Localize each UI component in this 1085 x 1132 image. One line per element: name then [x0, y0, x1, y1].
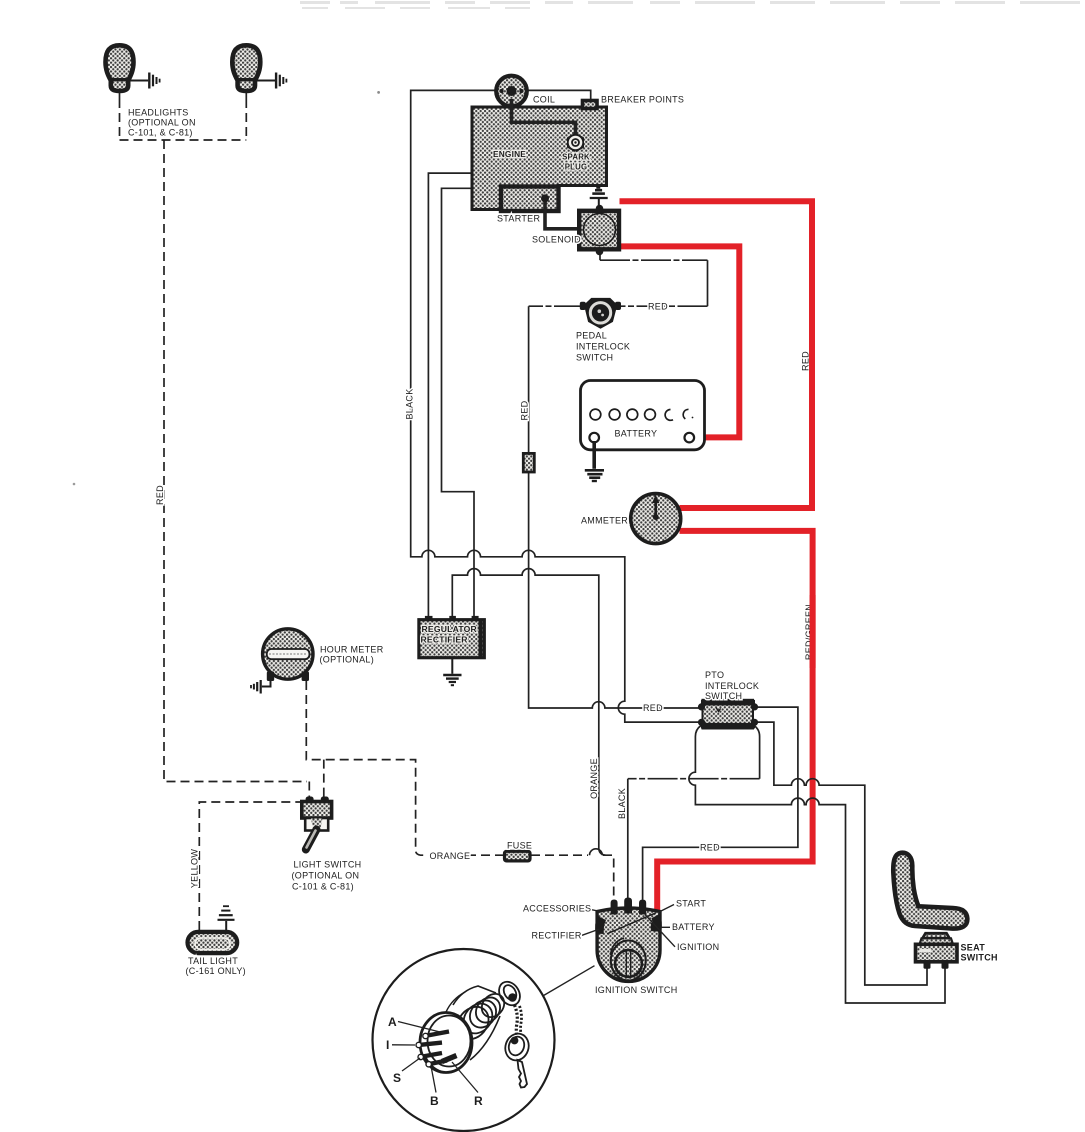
leader line ACCESSORIES: [587, 909, 601, 912]
label light switch: [292, 860, 362, 892]
svg-text:SEAT: SEAT: [961, 943, 986, 953]
ground (hour meter, sideways): [251, 680, 271, 694]
wire: fuse to ignition ACCESSORIES dashed with hop over orange: [531, 854, 588, 856]
PTO interlock switch: [698, 700, 758, 729]
wire: light switch right terminal drop: [323, 760, 325, 799]
tail light: [188, 932, 238, 953]
svg-text:START: START: [676, 898, 706, 908]
svg-text:RED: RED: [700, 842, 720, 852]
svg-text:LIGHT SWITCH: LIGHT SWITCH: [294, 860, 362, 870]
wire: solenoid bottom to pedal interlock right (dash-dot): [599, 252, 601, 260]
label regulator rectifier: [421, 624, 478, 645]
ignition terminal tab battery-wire: [639, 900, 646, 915]
ground (engine/starter, above solenoid): [590, 188, 608, 208]
stray scan dot: [73, 483, 76, 486]
ignition BATTERY side tab: [651, 923, 659, 931]
hour meter: [263, 629, 313, 681]
wire: light switch left terminal drop: [308, 782, 310, 800]
red wire: battery to solenoid bottom: [620, 246, 739, 437]
coil: [496, 76, 527, 107]
inset pin R: [442, 1056, 457, 1062]
stray scan dot: [377, 91, 380, 94]
wire: coil to spark plug (thick): [512, 99, 576, 134]
svg-text:BLACK: BLACK: [405, 388, 415, 419]
svg-text:PLUG: PLUG: [565, 163, 587, 172]
svg-text:BREAKER POINTS: BREAKER POINTS: [601, 95, 684, 105]
seat switch: [916, 933, 958, 969]
svg-text:INTERLOCK: INTERLOCK: [705, 681, 759, 691]
wire: tail light YELLOW dashed: [199, 802, 304, 930]
pedal interlock switch: [580, 298, 621, 328]
starter: [501, 187, 559, 212]
svg-text:R: R: [474, 1094, 483, 1108]
wire: red feed pedal interlock to PTO left top with hop over orange: [529, 306, 699, 708]
wire: starter to solenoid (thick): [545, 198, 580, 228]
svg-text:ORANGE: ORANGE: [589, 758, 599, 799]
svg-text:(OPTIONAL ON: (OPTIONAL ON: [128, 118, 196, 128]
svg-text:C-101, & C-81): C-101, & C-81): [128, 128, 193, 138]
leader line START: [660, 905, 675, 912]
leader line RECTIFIER: [582, 929, 600, 935]
label red/green rotated behind red wire: [804, 595, 814, 668]
wire: headlight 2 dashed drop: [245, 99, 247, 140]
svg-text:SOLENOID: SOLENOID: [532, 235, 581, 245]
svg-text:YELLOW: YELLOW: [190, 849, 200, 889]
label tail light: [186, 956, 246, 976]
svg-text:RECTIFIER: RECTIFIER: [421, 634, 469, 644]
wire: engine stator lead 2 to regulator right terminal: [442, 188, 475, 617]
svg-text:RED: RED: [520, 400, 530, 420]
svg-text:A: A: [388, 1015, 397, 1029]
svg-text:IGNITION SWITCH: IGNITION SWITCH: [595, 985, 678, 995]
svg-text:SPARK: SPARK: [562, 153, 590, 162]
ground (headlight 1, sideways): [129, 73, 160, 89]
engine block: [472, 107, 607, 210]
wire: PTO left-bottom to seat switch right terminal, hop over black bus and reds: [689, 726, 945, 1004]
internal diagonal mark: [607, 913, 656, 934]
inset pin B: [426, 1061, 447, 1067]
regulator rectifier: [419, 616, 484, 658]
svg-text:SWITCH: SWITCH: [961, 953, 998, 963]
wire: engine stator lead 1 to regulator left terminal: [428, 173, 472, 617]
leader line inset to switch: [544, 966, 595, 996]
svg-text:BLACK: BLACK: [617, 788, 627, 819]
inset pin S: [418, 1053, 442, 1060]
seat: [893, 853, 967, 929]
breaker points: [583, 101, 598, 109]
wire: pedal interlock left lead (dash-dot): [529, 305, 584, 307]
svg-text:RED: RED: [648, 302, 668, 312]
inset key in lock: [495, 978, 524, 1009]
svg-text:HEADLIGHTS: HEADLIGHTS: [128, 108, 189, 118]
wire: coil to breaker points: [527, 90, 591, 100]
ignition terminal tab left shoulder: [595, 916, 606, 934]
label PTO interlock switch: [705, 670, 759, 701]
svg-text:(C-161 ONLY): (C-161 ONLY): [186, 966, 246, 976]
svg-text:SWITCH: SWITCH: [705, 691, 742, 701]
inset pin A: [423, 1032, 449, 1039]
svg-text:C-101 & C-81): C-101 & C-81): [292, 882, 354, 892]
inset label S with leader: [393, 1058, 420, 1085]
inset switch rear housing: [420, 986, 509, 1073]
solenoid: [579, 205, 619, 256]
leader line BATTERY: [661, 926, 671, 928]
wire: hour meter to orange label dashed: [306, 681, 428, 855]
leader line IGNITION: [645, 915, 675, 947]
wire: PTO right-bottom to seat switch left terminal, hops over red: [756, 722, 927, 985]
inset label I with leader: [386, 1038, 415, 1052]
wire: black bus to ignition center tab (dash-dot): [628, 778, 760, 780]
connector (inline, red pedal wire): [523, 453, 534, 472]
label headlights: [128, 108, 196, 138]
svg-text:ORANGE: ORANGE: [430, 851, 471, 861]
wire: headlight 1 dashed drop: [119, 99, 121, 140]
svg-text:I: I: [386, 1038, 389, 1052]
svg-text:FUSE: FUSE: [507, 841, 532, 851]
label pedal interlock switch: [576, 331, 630, 363]
ignition switch body: [597, 908, 660, 981]
svg-text:RECTIFIER: RECTIFIER: [532, 930, 582, 940]
inset key chain: [515, 1005, 518, 1035]
wire: PTO right-bottom down-leg to black bus: [753, 725, 760, 779]
wire: orange label to fuse dashed: [467, 854, 503, 856]
label red rotated (solenoid-ammeter): [801, 340, 813, 382]
wire: headlight 1 lead: [119, 90, 121, 99]
svg-text:REGULATOR: REGULATOR: [422, 624, 478, 634]
svg-text:(OPTIONAL ON: (OPTIONAL ON: [292, 871, 360, 881]
wire: ignition center tab riser: [627, 779, 629, 900]
svg-text:RED: RED: [155, 485, 165, 505]
fuse: [505, 851, 531, 861]
inset pin I: [416, 1042, 442, 1047]
ignition terminal tab ACCESSORIES: [611, 900, 618, 915]
svg-text:COIL: COIL: [533, 95, 555, 105]
wire: headlight 2 lead: [245, 90, 247, 99]
ignition terminal tab START right shoulder: [652, 914, 662, 932]
ignition terminal tab center: [624, 898, 632, 914]
starter terminal dot: [541, 194, 549, 202]
wire: PTO right-top to ignition BATTERY tab: [643, 707, 798, 899]
ground (regulator): [443, 658, 461, 686]
label hour meter: [320, 644, 384, 664]
svg-text:BATTERY: BATTERY: [672, 922, 715, 932]
svg-text:IGNITION: IGNITION: [677, 942, 719, 952]
inset label R with leader: [452, 1062, 483, 1108]
label seat switch: [961, 943, 998, 963]
label spark plug: [562, 153, 590, 172]
wire: regulator center terminal to orange feed: [452, 569, 605, 856]
svg-text:B: B: [430, 1094, 439, 1108]
wire: dashed RED feed to light switch: [164, 140, 307, 782]
faint cropped text row at top edge: [300, 1, 1080, 9]
svg-text:HOUR METER: HOUR METER: [320, 644, 384, 654]
wire: headlight dashed bus: [120, 139, 247, 141]
svg-text:STARTER: STARTER: [497, 214, 540, 224]
headlight lamp 2: [232, 45, 260, 91]
svg-text:ENGINE: ENGINE: [493, 149, 526, 159]
inset key 2: [502, 1031, 532, 1088]
svg-text:TAIL LIGHT: TAIL LIGHT: [188, 956, 238, 966]
svg-text:(OPTIONAL): (OPTIONAL): [320, 655, 375, 665]
ground (battery): [585, 441, 604, 481]
spark plug: [567, 133, 584, 153]
ground (headlight 2, sideways): [255, 73, 286, 89]
svg-text:SWITCH: SWITCH: [576, 353, 613, 363]
wire: coil to junction bus with hops over regulator wires: [411, 90, 698, 722]
svg-text:ACCESSORIES: ACCESSORIES: [523, 903, 591, 913]
inset label A with leader: [388, 1015, 444, 1033]
light switch: [302, 797, 332, 850]
svg-text:S: S: [393, 1071, 401, 1085]
svg-text:PTO: PTO: [705, 670, 724, 680]
svg-text:PEDAL: PEDAL: [576, 331, 607, 341]
battery: [581, 381, 705, 450]
red wire: solenoid to ammeter top: [620, 201, 813, 508]
headlight lamp 1: [106, 45, 134, 91]
ground (tail light, above): [218, 906, 235, 930]
svg-text:RED: RED: [643, 703, 663, 713]
inset label B with leader: [430, 1066, 439, 1108]
svg-text:INTERLOCK: INTERLOCK: [576, 342, 630, 352]
svg-text:AMMETER: AMMETER: [581, 515, 628, 525]
ammeter: [631, 494, 681, 544]
inset magnifier circle: [373, 949, 555, 1131]
red wire: ammeter bottom to ignition START: [657, 531, 812, 914]
svg-text:BATTERY: BATTERY: [615, 428, 658, 438]
